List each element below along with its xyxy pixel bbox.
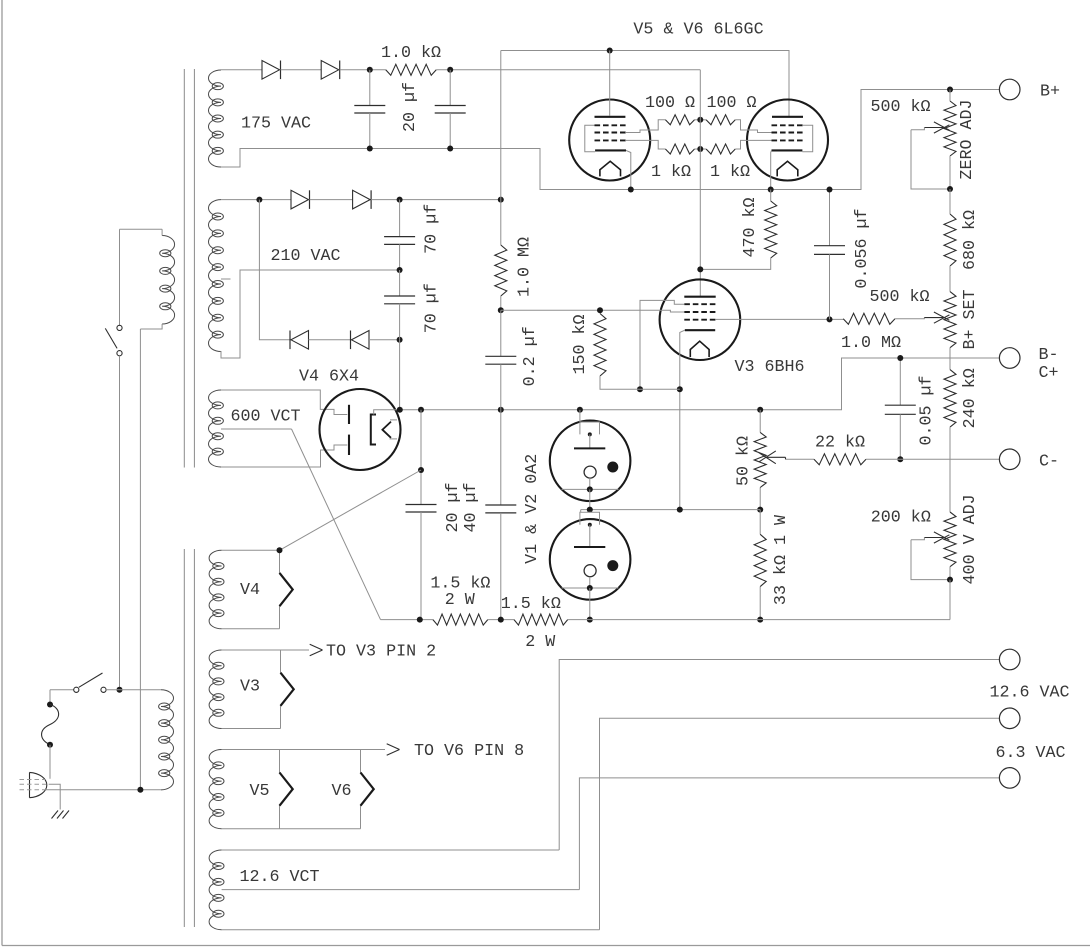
secondary winding 210 VAC bbox=[208, 200, 221, 352]
wire 12.6VCT bottom lead bbox=[222, 929, 600, 931]
svg-text:TO V6 PIN 8: TO V6 PIN 8 bbox=[414, 742, 524, 761]
V5 suppressor-cathode bracket bbox=[585, 125, 595, 152]
AC plug body bbox=[30, 772, 47, 797]
V1 anode bar bbox=[574, 447, 605, 449]
V5 cathode bar bbox=[595, 149, 626, 151]
svg-text:B-: B- bbox=[1038, 346, 1058, 365]
terminal B+ bbox=[999, 79, 1020, 100]
capacitor 20 µf C1 bbox=[354, 105, 385, 107]
svg-text:210 VAC: 210 VAC bbox=[270, 247, 340, 266]
junction V3 plate node bbox=[697, 266, 703, 272]
center tap stub 210VAC bbox=[221, 278, 231, 280]
junction node filter B bbox=[447, 67, 453, 73]
wire V4 heater bottom lead bbox=[222, 628, 280, 630]
junction V4 winding / diagonal bbox=[277, 547, 283, 553]
svg-text:240 kΩ: 240 kΩ bbox=[961, 368, 980, 428]
wire center tap diagonal to 1.5k row bbox=[292, 429, 381, 620]
resistor 1.5 kΩ 2W second bbox=[514, 614, 568, 625]
V2 base chord bbox=[562, 587, 619, 589]
wire screen supply rail bbox=[436, 69, 700, 71]
winding V3 heater tooth at x=280.5 bbox=[281, 650, 294, 729]
svg-text:22 kΩ: 22 kΩ bbox=[815, 434, 865, 453]
wire 50k top lead bbox=[759, 410, 761, 433]
wire 400v wiper to bottom bbox=[911, 540, 950, 580]
wire P1 top stub bbox=[161, 229, 163, 235]
junction grid node bbox=[498, 307, 504, 313]
diode D1 bbox=[262, 61, 280, 80]
wire V5 V6 heaters top lead bbox=[222, 749, 361, 751]
wire V3 cathode down to regulator string bbox=[680, 330, 685, 509]
wire 33k bottom lead bbox=[759, 587, 761, 620]
400V ADJ wiper arrow bbox=[924, 537, 945, 539]
resistor 1 kΩ right bbox=[706, 144, 735, 154]
tube V2 0A2 envelope bbox=[550, 519, 631, 600]
V3 cathode bar bbox=[685, 329, 715, 331]
wire D6 to C4 node bbox=[369, 339, 400, 341]
AC plug prongs bbox=[20, 779, 47, 781]
svg-text:V3 6BH6: V3 6BH6 bbox=[734, 358, 804, 377]
wire doubler output to main rail bbox=[399, 340, 401, 410]
wire neutral to P2 bottom bbox=[46, 789, 161, 791]
V5 plate bar bbox=[595, 116, 626, 118]
wire V5 plate lead bbox=[609, 51, 611, 116]
wire cap C2 bottom lead bbox=[449, 113, 451, 149]
junction V2 cathode bbox=[587, 585, 593, 591]
wire 470k to V3 plate node bbox=[700, 258, 770, 269]
wire V5 screen to 100Ω bbox=[626, 120, 665, 133]
wire V6 screen to 100Ω bbox=[735, 120, 771, 133]
wire V3 screen to grid node bbox=[501, 310, 685, 312]
V3 grid row 1 bbox=[684, 303, 715, 305]
wire 22k to C- terminal bbox=[866, 458, 999, 460]
wire C6 bottom lead bbox=[500, 513, 502, 620]
wire cap C1 top lead bbox=[369, 70, 371, 106]
V5 heater chevron bbox=[600, 161, 621, 176]
wire zero-adj wiper tail bbox=[911, 128, 924, 130]
resistor 150 kΩ bbox=[594, 314, 606, 377]
junction rail to C6 column bbox=[498, 407, 504, 413]
junction diagonal B top bbox=[418, 467, 424, 473]
wire V3 grid to divider bbox=[716, 318, 844, 320]
terminal 6.3 VAC bbox=[999, 708, 1020, 729]
junction row / C5 column bbox=[417, 617, 423, 623]
svg-text:B+: B+ bbox=[1040, 83, 1060, 102]
capacitor 0.2 µf bbox=[485, 355, 516, 357]
wire D1 to D2 bbox=[281, 69, 322, 71]
transformer T2 core line 1 bbox=[183, 549, 185, 927]
junction V1 cathode bbox=[587, 486, 593, 492]
capacitor 20 µf C5 bbox=[406, 504, 437, 506]
wire between 1kΩ resistors bbox=[695, 148, 707, 150]
junction C1 on return rail bbox=[367, 146, 373, 152]
V6 cathode bar bbox=[772, 149, 803, 151]
wire V4 cathode lead bbox=[374, 410, 400, 415]
svg-text:1.5 kΩ: 1.5 kΩ bbox=[501, 595, 561, 614]
V3 grid row 2 bbox=[684, 311, 715, 313]
svg-text:2 W: 2 W bbox=[445, 591, 475, 610]
wire between 100Ω resistors bbox=[695, 119, 707, 121]
junction 200k bottom bbox=[947, 577, 953, 583]
resistor 1.0 MΩ vertical bbox=[495, 245, 507, 296]
V4 heater chevron bbox=[382, 422, 391, 438]
svg-text:V5 & V6 6L6GC: V5 & V6 6L6GC bbox=[633, 21, 763, 40]
junction 0.05 top bbox=[897, 355, 903, 361]
wire 33k top lead bbox=[759, 510, 761, 535]
svg-text:2 W: 2 W bbox=[525, 633, 555, 652]
wire to switch S1 bbox=[119, 229, 121, 325]
svg-text:400 V ADJ: 400 V ADJ bbox=[961, 494, 980, 584]
V4 anode 1 bar bbox=[348, 405, 350, 424]
svg-text:12.6 VCT: 12.6 VCT bbox=[239, 868, 319, 887]
wire 175VAC to D1 bbox=[221, 69, 262, 71]
wire V6 cathode lead bbox=[770, 150, 773, 189]
svg-text:V3: V3 bbox=[240, 678, 260, 697]
V2 anode box bbox=[580, 512, 600, 524]
tube V5 6L6GC envelope bbox=[569, 100, 650, 181]
winding 12.6 VCT coil bbox=[209, 850, 221, 930]
svg-text:100 Ω: 100 Ω bbox=[645, 94, 695, 113]
diode D2 bbox=[321, 61, 339, 80]
junction V3 cathode on bus bbox=[677, 507, 683, 513]
transformer T1 core line 2 bbox=[193, 69, 195, 468]
wire doubler bottom branch bbox=[259, 200, 291, 340]
wire C 0.2 bottom lead bbox=[500, 364, 502, 410]
V1 cathode circle bbox=[584, 466, 596, 478]
wire 600VCT bottom to V4 anode 2 bbox=[221, 445, 347, 467]
potentiometer 200 kΩ 400 V ADJ bbox=[944, 512, 956, 567]
wire 12.6VCT center tap lead bbox=[222, 889, 580, 891]
junction rail to V1 bbox=[577, 407, 583, 413]
junction cathode bus A bbox=[637, 386, 643, 392]
junction doubler minus / C4 bbox=[397, 337, 403, 343]
primary winding P2 bbox=[161, 690, 174, 790]
switch S2 bbox=[74, 687, 79, 692]
svg-text:150 kΩ: 150 kΩ bbox=[571, 314, 590, 374]
tube V4 6X4 envelope bbox=[320, 389, 401, 470]
capacitor 0.05 µf bbox=[885, 404, 916, 406]
wire 0.05 bottom lead bbox=[899, 414, 901, 459]
junction row / C6 column bbox=[498, 617, 504, 623]
wire diagonal V4 heater winding to C5 bbox=[280, 470, 422, 550]
wire V5 grid to 1 kΩ bbox=[626, 140, 665, 149]
potentiometer 50 kΩ bbox=[754, 432, 766, 487]
transformer T2 core line 2 bbox=[193, 549, 195, 927]
ZERO ADJ wiper arrow bbox=[924, 127, 945, 129]
wire 600VCT top to V4 anode 1 bbox=[221, 390, 347, 415]
V1 base chord bbox=[562, 488, 619, 490]
resistor 1.5 kΩ 2W first bbox=[433, 614, 488, 625]
wire 200k bottom lead bbox=[949, 567, 951, 580]
diode D4 bbox=[353, 190, 371, 209]
wire C4 top lead bbox=[399, 270, 401, 296]
V4 cathode bracket bbox=[371, 415, 376, 445]
wire switch S1 to S2 bbox=[119, 356, 121, 690]
power cord squiggle bbox=[42, 705, 59, 745]
wire V4 heater top lead bbox=[222, 549, 280, 551]
wire C3 bottom lead bbox=[399, 244, 401, 270]
wire V1 anode stem bbox=[589, 434, 591, 448]
resistor 100 Ω left bbox=[665, 115, 694, 125]
V6 grid row 1 bbox=[772, 124, 804, 126]
resistor 680 kΩ bbox=[944, 214, 956, 266]
V2 gas dot bbox=[607, 560, 618, 571]
wire row right segment bbox=[568, 619, 950, 621]
wire center tap to terminal bbox=[579, 778, 999, 890]
svg-text:1.0 MΩ: 1.0 MΩ bbox=[841, 334, 901, 353]
wire V6 grid to 1 kΩ bbox=[735, 140, 771, 149]
wire V1 to bus bbox=[589, 489, 591, 509]
wire to 6.3 VAC terminal bbox=[600, 718, 1000, 929]
wire to 12.6 VAC terminal bbox=[559, 660, 999, 851]
wire plug to ground bbox=[49, 784, 61, 809]
wire zero-adj top lead bbox=[949, 90, 951, 102]
junction 0.056 cap bottom bbox=[827, 316, 833, 322]
wire 0.056 bottom lead bbox=[829, 254, 831, 319]
junction doubler output to B+ column bbox=[498, 197, 504, 203]
junction 150k top bbox=[597, 307, 603, 313]
wire plug hot to S2 bbox=[49, 690, 51, 705]
svg-text:0.05 µf: 0.05 µf bbox=[918, 375, 937, 445]
wire plate rail y=50.5 bbox=[501, 51, 789, 117]
wire 50k bottom lead bbox=[759, 488, 761, 510]
wire 12.6VCT top lead bbox=[222, 849, 560, 851]
wire primary return vertical bbox=[139, 329, 141, 790]
junction rail to 50k pot bbox=[757, 407, 763, 413]
wire D4 to doubler + node bbox=[371, 199, 501, 201]
svg-text:33 kΩ 1 W: 33 kΩ 1 W bbox=[772, 515, 791, 605]
resistor 1.0 kΩ bbox=[386, 64, 437, 75]
svg-text:70 µf: 70 µf bbox=[423, 283, 442, 333]
winding V3 heater coil bbox=[209, 650, 222, 729]
wire C3 top lead bbox=[399, 200, 401, 237]
svg-text:0.056 µf: 0.056 µf bbox=[853, 208, 872, 288]
wire D3 to D4 bbox=[310, 199, 353, 201]
V4 anode 2 bar bbox=[348, 435, 350, 455]
V6 plate bar bbox=[772, 116, 803, 118]
wire 680k to B+SET bbox=[949, 266, 951, 292]
wire V4 heater stub 1 bbox=[390, 419, 397, 421]
wire regulator bus y=509.6 bbox=[581, 509, 761, 511]
wire P1 bottom lead bbox=[140, 324, 162, 329]
V1 anode box bbox=[580, 422, 600, 434]
svg-text:1.0 MΩ: 1.0 MΩ bbox=[516, 237, 535, 297]
frame border left bbox=[1, 0, 3, 946]
V6 heater chevron bbox=[777, 161, 798, 176]
wire chain to resistor row bbox=[949, 580, 951, 620]
V2 cathode circle bbox=[584, 565, 596, 577]
svg-text:TO V3 PIN 2: TO V3 PIN 2 bbox=[326, 643, 436, 662]
svg-text:500 kΩ: 500 kΩ bbox=[869, 288, 929, 307]
wire 400v wiper tail bbox=[911, 538, 924, 540]
junction node filter A bbox=[367, 67, 373, 73]
wire D5 to D6 bbox=[309, 339, 352, 341]
V6 grid row 3 bbox=[772, 139, 804, 141]
svg-text:V4 6X4: V4 6X4 bbox=[299, 368, 359, 387]
junction cap midpoint bbox=[397, 267, 403, 273]
wire V2 anode stem bbox=[589, 525, 591, 547]
junction zero-adj bottom bbox=[947, 186, 953, 192]
junction rail to C5 bbox=[418, 407, 424, 413]
wire 210VAC top lead bbox=[221, 199, 291, 201]
junction cord top bbox=[47, 702, 53, 708]
capacitor 70 µf C3 bbox=[384, 236, 415, 238]
wire V3 heater top lead bbox=[222, 649, 281, 651]
junction doubler plus / C3 bbox=[397, 197, 403, 203]
junction V1-V2 bbox=[587, 507, 593, 513]
svg-text:V4: V4 bbox=[240, 581, 260, 600]
frame border bottom bbox=[2, 945, 1090, 947]
wire V1 anode lead bbox=[579, 410, 581, 422]
tube V3 6BH6 envelope bbox=[660, 279, 741, 360]
secondary winding 600 VCT bbox=[209, 390, 222, 467]
svg-text:1 kΩ: 1 kΩ bbox=[651, 163, 691, 182]
junction doubler top tap bbox=[256, 197, 262, 203]
wire V3 suppressor to cathode bus bbox=[640, 300, 684, 389]
junction C2 on return rail bbox=[447, 146, 453, 152]
wire row mid segment bbox=[488, 619, 514, 621]
junction B+ node bbox=[947, 87, 953, 93]
wire 0.056 top lead bbox=[829, 190, 831, 246]
svg-text:1 kΩ: 1 kΩ bbox=[710, 163, 750, 182]
terminal center tap bbox=[999, 768, 1020, 789]
junction plate rail V5 bbox=[607, 48, 613, 54]
V3 plate bar bbox=[684, 296, 715, 298]
transformer T1 core line 1 bbox=[183, 69, 185, 468]
winding V4 heater tooth at x=279.5 bbox=[280, 550, 293, 629]
svg-text:680 kΩ: 680 kΩ bbox=[961, 210, 980, 270]
svg-text:70 µf: 70 µf bbox=[423, 204, 442, 254]
wire cap C2 top lead bbox=[449, 70, 451, 106]
junction cord bottom bbox=[47, 742, 53, 748]
wire 600VCT center tap lead bbox=[221, 428, 292, 430]
svg-text:500 kΩ: 500 kΩ bbox=[870, 98, 930, 117]
junction 50k bottom bbox=[757, 507, 763, 513]
svg-text:12.6 VAC: 12.6 VAC bbox=[989, 684, 1069, 703]
diode D6 bbox=[350, 331, 352, 350]
svg-text:470 kΩ: 470 kΩ bbox=[741, 197, 760, 257]
svg-text:B+ SET: B+ SET bbox=[961, 289, 980, 349]
V3 grid row 3 bbox=[684, 319, 715, 321]
wire cap C1 bottom lead bbox=[369, 113, 371, 149]
resistor 470 kΩ bbox=[765, 201, 777, 258]
V5 grid row 3 bbox=[595, 139, 627, 141]
junction V6 cathode / 470k on rail bbox=[768, 187, 774, 193]
junction 0.05 bottom on C- row bbox=[897, 456, 903, 462]
B+ SET wiper arrow bbox=[924, 317, 945, 319]
wire 175VAC return / cathode rail / B+ riser bbox=[221, 90, 999, 190]
V5 grid row 1 bbox=[595, 124, 627, 126]
resistor 22 kΩ bbox=[814, 454, 866, 465]
junction 1kΩ center bbox=[697, 146, 703, 152]
svg-text:6.3 VAC: 6.3 VAC bbox=[995, 744, 1065, 763]
wire V2 anode lead bbox=[580, 510, 582, 513]
junction P1 return / neutral bbox=[137, 787, 143, 793]
wire C 0.2 top lead bbox=[500, 310, 502, 356]
wire screen feed vertical x=700 bbox=[699, 70, 701, 297]
wire S2 to winding P2 bbox=[106, 689, 161, 691]
primary winding P1 bbox=[162, 236, 175, 325]
resistor 240 kΩ bbox=[944, 370, 956, 428]
secondary winding 175 VAC bbox=[208, 70, 221, 167]
svg-text:V5: V5 bbox=[249, 782, 269, 801]
junction switch wires bbox=[117, 687, 123, 693]
wire C6 top lead bbox=[500, 410, 502, 505]
terminal 12.6 VAC bbox=[999, 649, 1020, 670]
tube V6 6L6GC envelope bbox=[747, 100, 828, 181]
svg-text:600 VCT: 600 VCT bbox=[230, 408, 300, 427]
junction cathode bus B bbox=[677, 386, 683, 392]
svg-text:175 VAC: 175 VAC bbox=[241, 115, 311, 134]
wire V5 cathode lead bbox=[626, 150, 631, 189]
wire V3 heater bottom lead bbox=[222, 728, 281, 730]
svg-text:20 µf: 20 µf bbox=[444, 482, 463, 532]
wire zero-adj wiper to bottom bbox=[911, 130, 950, 189]
svg-text:100 Ω: 100 Ω bbox=[706, 94, 756, 113]
svg-text:C-: C- bbox=[1039, 452, 1059, 471]
winding V5 V6 heaters coil bbox=[209, 750, 222, 829]
svg-text:50 kΩ: 50 kΩ bbox=[735, 436, 754, 486]
wire zero-adj bottom lead bbox=[949, 156, 951, 189]
wire 50k wiper to 22k bbox=[786, 458, 815, 460]
resistor 100 Ω right bbox=[706, 115, 735, 125]
junction V4 cathode / doubler output bbox=[397, 407, 403, 413]
wire C5 bottom lead bbox=[420, 512, 422, 620]
wire 1.0M to B+SET wiper bbox=[895, 318, 924, 319]
wire to V3 pin 2 arrow bbox=[281, 649, 310, 651]
svg-text:C+: C+ bbox=[1038, 364, 1058, 383]
wire primary top lead bbox=[120, 228, 163, 230]
wire D2 to R 1.0k bbox=[340, 69, 386, 71]
svg-text:ZERO ADJ: ZERO ADJ bbox=[958, 99, 977, 179]
V1 gas dot bbox=[607, 462, 618, 473]
svg-text:200 kΩ: 200 kΩ bbox=[871, 508, 931, 527]
terminal C- bbox=[999, 449, 1020, 470]
winding V5 V6 heaters tooth at x=360.5 bbox=[361, 750, 374, 829]
wire V5 V6 heaters bottom lead bbox=[222, 828, 361, 830]
potentiometer 500 kΩ ZERO ADJ bbox=[944, 101, 956, 156]
wire to V6 pin 8 arrow bbox=[361, 749, 386, 751]
wire C5 top lead bbox=[420, 410, 422, 505]
wire S2 left segment bbox=[50, 689, 74, 691]
wire 1.0M to grid node bbox=[500, 296, 502, 310]
capacitor 70 µf C4 bbox=[384, 295, 415, 297]
resistor 1.0 MΩ horizontal bbox=[843, 313, 895, 324]
wire 0.05 top lead bbox=[899, 358, 901, 405]
wire B+ column upper bbox=[500, 51, 502, 246]
capacitor 0.056 µf bbox=[814, 245, 845, 247]
svg-text:1.0 kΩ: 1.0 kΩ bbox=[381, 44, 441, 63]
wire V2 cathode stem bbox=[589, 577, 591, 588]
wire 210VAC bottom to cap midpoint bbox=[221, 270, 400, 358]
ground symbol bbox=[52, 811, 59, 819]
switch S1 bbox=[117, 325, 122, 330]
svg-text:V6: V6 bbox=[331, 782, 351, 801]
wire 240k to 200k bbox=[949, 427, 951, 512]
V3 heater chevron bbox=[690, 341, 709, 357]
wire main rail to B-/C+ terminal bbox=[400, 358, 1000, 410]
wire 470k top lead bbox=[770, 190, 772, 202]
winding V4 heater coil bbox=[209, 550, 222, 629]
wire row left segment bbox=[381, 619, 433, 621]
wire V2 to row bbox=[589, 588, 591, 620]
potentiometer 500 kΩ B+ SET bbox=[944, 292, 956, 348]
svg-text:V1 & V2 0A2: V1 & V2 0A2 bbox=[523, 454, 542, 564]
junction V5 cathode on rail bbox=[628, 187, 634, 193]
wire B+SET to 240k bbox=[949, 348, 951, 370]
tube V1 0A2 envelope bbox=[550, 421, 631, 502]
svg-text:40 µf: 40 µf bbox=[462, 482, 481, 532]
wire C4 bottom lead bbox=[399, 304, 401, 340]
